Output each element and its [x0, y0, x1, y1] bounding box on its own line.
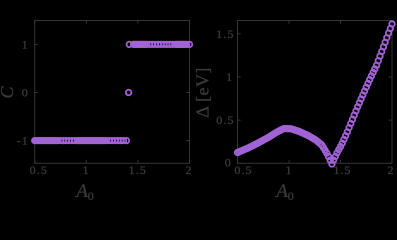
svg-text:1.5: 1.5 [216, 27, 234, 41]
svg-text:Δ [eV]: Δ [eV] [193, 67, 213, 117]
svg-text:0.5: 0.5 [234, 163, 252, 177]
svg-text:2: 2 [185, 163, 192, 177]
svg-text:1: 1 [285, 163, 292, 177]
svg-text:1: 1 [22, 37, 29, 51]
svg-text:1: 1 [83, 163, 90, 177]
svg-text:1: 1 [226, 70, 233, 84]
svg-text:0: 0 [225, 156, 232, 170]
svg-text:C: C [0, 86, 17, 99]
svg-text:1.5: 1.5 [333, 163, 351, 177]
svg-text:1.5: 1.5 [129, 163, 147, 177]
svg-text:0: 0 [22, 86, 29, 100]
svg-text:-1: -1 [17, 134, 29, 148]
svg-text:0.5: 0.5 [216, 113, 234, 127]
svg-text:0.5: 0.5 [30, 163, 48, 177]
svg-text:2: 2 [387, 163, 394, 177]
